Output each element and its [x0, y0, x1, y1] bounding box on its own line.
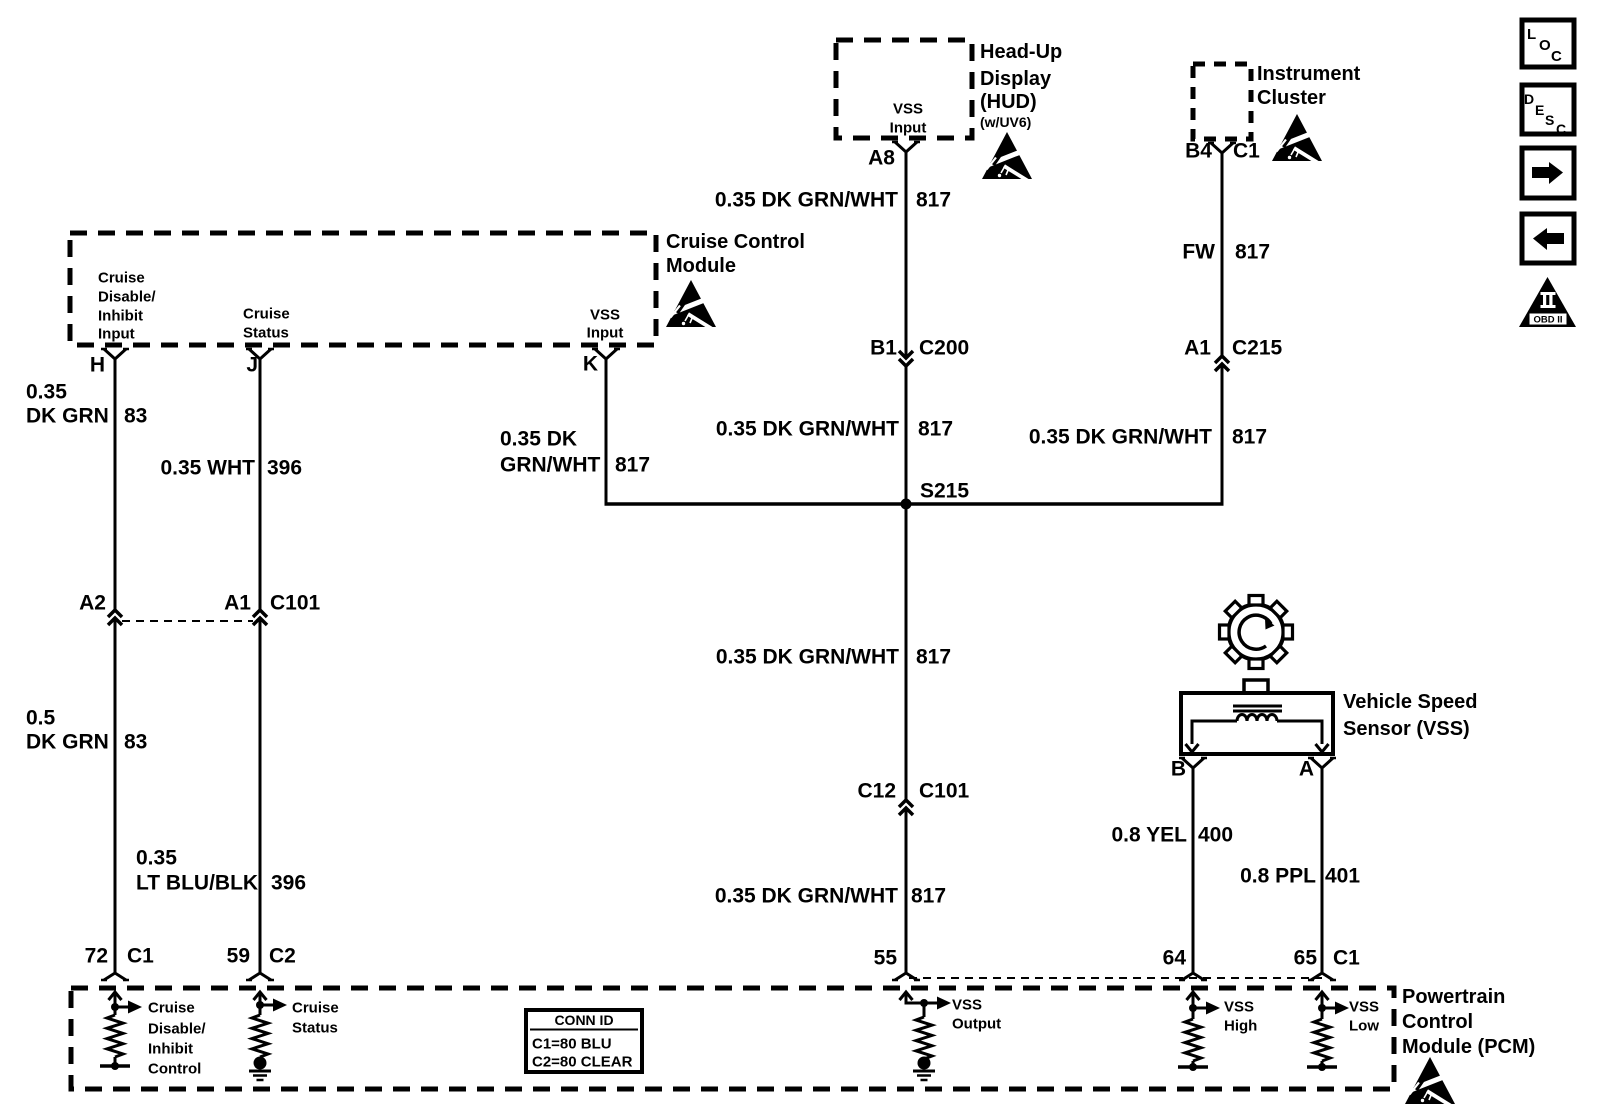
svg-text:Cruise: Cruise — [148, 999, 195, 1016]
svg-text:GRN/WHT: GRN/WHT — [500, 453, 600, 476]
svg-text:D: D — [1524, 91, 1534, 107]
wire: 0.8 PPL 401 (VSS A to PCM pin 65) — [1321, 768, 1324, 973]
svg-text:A1: A1 — [224, 591, 251, 614]
svg-text:C215: C215 — [1232, 336, 1283, 359]
svg-text:Status: Status — [292, 1019, 338, 1036]
svg-text:DK GRN: DK GRN — [26, 730, 109, 753]
svg-text:O: O — [1539, 37, 1551, 54]
svg-text:Input: Input — [98, 325, 135, 342]
svg-text:55: 55 — [874, 946, 898, 969]
svg-text:LT BLU/BLK: LT BLU/BLK — [136, 871, 258, 894]
icon: OBD II triangle — [1519, 277, 1576, 327]
chassis bar termination (pin 72 circuit) — [100, 1064, 130, 1068]
svg-text:C200: C200 — [919, 336, 969, 359]
resistor: Cruise Status pull-up — [259, 992, 262, 1015]
svg-text:817: 817 — [911, 884, 946, 907]
svg-text:C1: C1 — [1233, 139, 1260, 162]
svg-text:Inhibit: Inhibit — [98, 307, 143, 324]
svg-text:DK GRN: DK GRN — [26, 404, 109, 427]
svg-text:0.35 DK GRN/WHT: 0.35 DK GRN/WHT — [715, 884, 898, 907]
ground (VSS Output circuit) — [918, 1057, 931, 1070]
chassis bar termination (VSS High) — [1178, 1065, 1208, 1069]
svg-text:VSS: VSS — [1224, 998, 1254, 1015]
pin B connector (Y fork at VSS) — [1182, 758, 1204, 768]
pin B4 connector (Y fork at cluster) — [1211, 143, 1233, 153]
svg-text:OBD II: OBD II — [1533, 315, 1562, 326]
connector A2 C101 (inline) — [108, 610, 122, 617]
svg-text:High: High — [1224, 1017, 1257, 1034]
wire: 0.35 WHT 396 (J to A1) — [259, 359, 262, 610]
splice S215 — [901, 499, 912, 510]
svg-text:C1: C1 — [1333, 946, 1360, 969]
svg-text:396: 396 — [271, 871, 306, 894]
pin H connector (Y fork at CCM) — [104, 349, 126, 359]
svg-text:0.5: 0.5 — [26, 706, 56, 729]
ground (Cruise Status circuit) — [254, 1057, 267, 1070]
svg-text:C2=80 CLEAR: C2=80 CLEAR — [532, 1053, 633, 1070]
svg-text:396: 396 — [267, 456, 302, 479]
svg-text:A8: A8 — [868, 146, 895, 169]
connector B1 C200 (inline) — [899, 351, 913, 358]
module box: Instrument Cluster (dashed) — [1193, 64, 1251, 139]
svg-text:Module: Module — [666, 255, 736, 277]
svg-text:Sensor (VSS): Sensor (VSS) — [1343, 718, 1470, 740]
connector C12 C101 (inline) — [899, 800, 913, 807]
table: CONN ID (C1=80 BLU, C2=80 CLEAR) — [526, 1010, 642, 1072]
svg-text:65: 65 — [1294, 946, 1318, 969]
svg-text:B1: B1 — [870, 336, 897, 359]
svg-text:Inhibit: Inhibit — [148, 1040, 193, 1057]
svg-text:0.35 DK GRN/WHT: 0.35 DK GRN/WHT — [716, 645, 899, 668]
svg-text:C1: C1 — [127, 944, 154, 967]
svg-text:Module (PCM): Module (PCM) — [1402, 1036, 1535, 1058]
svg-text:0.35 DK GRN/WHT: 0.35 DK GRN/WHT — [716, 417, 899, 440]
icon: forward arrow box — [1522, 148, 1574, 198]
svg-text:C1=80 BLU: C1=80 BLU — [532, 1035, 612, 1052]
svg-text:Cruise: Cruise — [98, 269, 145, 286]
svg-text:Cruise: Cruise — [243, 305, 290, 322]
pin 59 connector fork (PCM) — [249, 973, 271, 980]
module box: Head-Up Display (dashed) — [836, 40, 972, 138]
wire: 0.35 LT BLU/BLK 396 (A1 to PCM pin 59) — [259, 618, 262, 973]
ESD symbol (PCM) — [1405, 1057, 1456, 1109]
svg-text:Instrument: Instrument — [1257, 63, 1361, 85]
pin 55 connector fork (PCM) — [895, 973, 917, 980]
component box: Vehicle Speed Sensor (VSS) — [1181, 693, 1333, 754]
wire: 0.35 DK GRN 83 (H to A2) — [114, 359, 117, 610]
svg-text:A1: A1 — [1184, 336, 1211, 359]
wire: 0.8 YEL 400 (VSS B to PCM pin 64) — [1192, 768, 1195, 973]
pin 64 connector fork (PCM) — [1182, 973, 1204, 980]
svg-text:0.35 WHT: 0.35 WHT — [160, 456, 255, 479]
svg-text:817: 817 — [1235, 240, 1270, 263]
wire: 0.35 DK GRN/WHT 817 (C101 to PCM pin 55) — [905, 808, 908, 973]
resistor: VSS Output load — [920, 999, 928, 1007]
svg-text:401: 401 — [1325, 864, 1360, 887]
svg-text:Output: Output — [952, 1015, 1001, 1032]
svg-text:0.35: 0.35 — [136, 846, 177, 869]
wire: 0.35 DK GRN/WHT 817 (C215 to S215) — [1221, 364, 1224, 503]
connector A1 C215 (inline) — [1215, 356, 1229, 363]
ESD symbol (HUD) — [982, 132, 1033, 184]
svg-text:Disable/: Disable/ — [98, 288, 156, 305]
svg-text:(w/UV6): (w/UV6) — [980, 114, 1031, 130]
VSS coil winding — [1237, 715, 1277, 722]
svg-text:VSS: VSS — [893, 100, 923, 117]
dashed link A2-A1 (connector C101) — [122, 620, 253, 622]
VSS inductive pickup core — [1233, 705, 1282, 708]
svg-text:CONN ID: CONN ID — [554, 1012, 613, 1028]
svg-text:72: 72 — [85, 944, 108, 967]
VSS internal wire to pin B — [1192, 721, 1237, 744]
svg-text:817: 817 — [916, 188, 951, 211]
svg-text:C2: C2 — [269, 944, 296, 967]
svg-text:K: K — [583, 352, 598, 375]
svg-text:Cruise Control: Cruise Control — [666, 231, 805, 253]
svg-text:S215: S215 — [920, 479, 969, 502]
svg-text:817: 817 — [916, 645, 951, 668]
PCM input arrow pin 64 — [1187, 992, 1200, 1000]
svg-text:C: C — [1556, 121, 1566, 137]
pin A8 connector (Y fork at HUD) — [895, 142, 917, 152]
wire: 0.35 DK GRN/WHT 817 (K to S215) — [605, 359, 608, 504]
svg-text:S: S — [1545, 112, 1554, 128]
svg-text:C101: C101 — [919, 779, 970, 802]
svg-text:Vehicle Speed: Vehicle Speed — [1343, 691, 1478, 713]
VSS internal wire to pin A — [1277, 721, 1322, 744]
svg-text:FW: FW — [1182, 240, 1215, 263]
pin 72 connector fork (PCM) — [104, 973, 126, 980]
svg-text:83: 83 — [124, 404, 147, 427]
ESD symbol (Cruise Control Module) — [666, 280, 717, 332]
pin 65 connector fork (PCM) — [1311, 973, 1333, 980]
pin A connector (Y fork at VSS) — [1311, 758, 1333, 768]
svg-text:J: J — [246, 353, 258, 376]
svg-text:817: 817 — [918, 417, 953, 440]
svg-text:83: 83 — [124, 730, 147, 753]
ESD symbol (Instrument Cluster) — [1272, 114, 1323, 166]
svg-text:0.8 PPL: 0.8 PPL — [1240, 864, 1316, 887]
pin J connector (Y fork at CCM) — [249, 349, 271, 359]
svg-text:C101: C101 — [270, 591, 321, 614]
PCM input arrow pin 72 — [109, 992, 122, 1000]
svg-text:817: 817 — [615, 453, 650, 476]
svg-text:C12: C12 — [857, 779, 896, 802]
svg-text:Display: Display — [980, 68, 1052, 90]
pin K connector (Y fork at CCM) — [595, 349, 617, 359]
svg-text:Low: Low — [1349, 1017, 1379, 1034]
PCM input arrow pin 59 — [254, 992, 267, 1000]
wire: 0.5 DK GRN 83 (A2 to PCM pin 72) — [114, 618, 117, 973]
svg-text:Status: Status — [243, 324, 289, 341]
svg-text:VSS: VSS — [952, 996, 982, 1013]
svg-text:Disable/: Disable/ — [148, 1020, 206, 1037]
svg-text:Control: Control — [1402, 1011, 1473, 1033]
svg-text:(HUD): (HUD) — [980, 91, 1037, 113]
svg-text:64: 64 — [1163, 946, 1187, 969]
resistor: VSS Low load — [1321, 992, 1324, 1019]
icon: back arrow box — [1522, 214, 1574, 263]
module box: Cruise Control Module (dashed) — [70, 233, 656, 345]
PCM input pin 55 wire jog — [900, 992, 913, 1000]
svg-text:Input: Input — [890, 119, 927, 136]
svg-text:H: H — [90, 353, 105, 376]
svg-text:Powertrain: Powertrain — [1402, 986, 1505, 1008]
svg-text:0.8 YEL: 0.8 YEL — [1112, 823, 1188, 846]
svg-text:L: L — [1527, 26, 1536, 43]
module box: Powertrain Control Module PCM (dashed) — [71, 988, 1394, 1089]
svg-text:Control: Control — [148, 1060, 201, 1077]
wire: FW 817 (B4 to C215) — [1221, 153, 1224, 356]
svg-text:Cruise: Cruise — [292, 999, 339, 1016]
svg-text:C: C — [1551, 48, 1562, 65]
svg-text:Input: Input — [587, 324, 624, 341]
svg-text:0.35 DK GRN/WHT: 0.35 DK GRN/WHT — [1029, 425, 1212, 448]
svg-text:VSS: VSS — [590, 306, 620, 323]
resistor: VSS High load — [1192, 992, 1195, 1019]
svg-text:B: B — [1171, 757, 1186, 780]
svg-text:VSS: VSS — [1349, 998, 1379, 1015]
wire: 0.35 DK GRN/WHT 817 (A8 to C200) — [905, 152, 908, 358]
svg-text:B4: B4 — [1185, 139, 1212, 162]
icon: LOC hyperlink box — [1522, 20, 1574, 67]
svg-text:A: A — [1299, 757, 1314, 780]
PCM input arrow pin 65 — [1316, 992, 1329, 1000]
tone wheel (reluctor gear with rotation arrow) — [1220, 596, 1293, 669]
connector A1 C101 (inline) — [253, 610, 267, 617]
svg-text:Cluster: Cluster — [1257, 87, 1326, 109]
svg-text:817: 817 — [1232, 425, 1267, 448]
resistor: Cruise Disable/Inhibit Control pull-up — [114, 992, 117, 1015]
svg-text:Head-Up: Head-Up — [980, 41, 1062, 63]
svg-text:59: 59 — [227, 944, 250, 967]
dashed link pins 55-64-65 (connector C1) — [909, 977, 1322, 979]
wire: 0.35 DK GRN/WHT 817 (C200 to S215) — [905, 366, 908, 504]
wire: 0.35 DK GRN/WHT 817 (S215 to C101) — [905, 504, 908, 800]
icon: DESC hyperlink box — [1522, 85, 1574, 134]
svg-text:E: E — [1535, 102, 1544, 118]
svg-text:0.35: 0.35 — [26, 380, 67, 403]
svg-text:0.35 DK: 0.35 DK — [500, 427, 577, 450]
chassis bar termination (VSS Low) — [1307, 1065, 1337, 1069]
svg-text:A2: A2 — [79, 591, 106, 614]
svg-text:0.35 DK GRN/WHT: 0.35 DK GRN/WHT — [715, 188, 898, 211]
svg-text:400: 400 — [1198, 823, 1233, 846]
